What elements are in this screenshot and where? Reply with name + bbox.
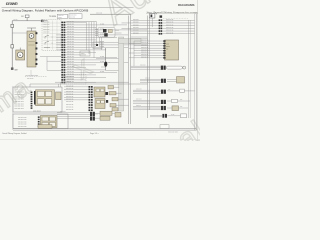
- wire left vertical: [11, 21, 13, 69]
- svg-text:xxxx xxx xx: xxxx xxx xx: [141, 49, 149, 51]
- svg-text:xxx xxxx xx: xxx xxxx xx: [66, 99, 74, 101]
- svg-text:xxxx xx: xxxx xx: [136, 105, 141, 107]
- box center a: [93, 42, 102, 49]
- svg-text:xxxx xxx xxxx: xxxx xxx xxxx: [15, 103, 24, 105]
- watermark fragment al (bottom-right corner): [171, 105, 226, 157]
- svg-text:xxx xx xxx: xxx xx xxx: [67, 26, 74, 28]
- wire under boxes: [96, 58, 119, 60]
- left stubs into CA401: [56, 35, 61, 50]
- svg-text:Page 2-3 x: Page 2-3 x: [90, 133, 99, 135]
- svg-text:xxxx xxxx xxxx: xxxx xxxx xxxx: [168, 131, 178, 133]
- svg-text:xxx xx xxx: xxx xx xxx: [67, 24, 74, 26]
- legend box 2: [69, 14, 82, 19]
- tiny connector top right: [160, 15, 163, 17]
- svg-text:xxxx xxx xx: xxxx xxx xx: [166, 32, 174, 34]
- svg-text:xxxx xxx xxxx: xxxx xxx xxxx: [15, 96, 24, 98]
- svg-text:M: M: [19, 55, 21, 57]
- relay K1 cluster: [98, 28, 115, 38]
- svg-text:Overall Wiring Diagram, Folded: Overall Wiring Diagram, Folded: [2, 132, 26, 135]
- row B: [133, 89, 161, 91]
- svg-text:xxx: xxx: [180, 99, 182, 101]
- wire to contactor: [12, 32, 27, 34]
- svg-text:xxx xx xxx: xxx xx xxx: [67, 54, 74, 56]
- connector column upper right: [159, 19, 163, 34]
- svg-text:xxxx xxx xx: xxxx xxx xx: [141, 45, 149, 47]
- fuse F1: [25, 15, 29, 18]
- svg-text:xxxx xxx: xxxx xxx: [58, 15, 64, 17]
- svg-text:xxxx xxx xx: xxxx xxx xx: [166, 27, 174, 29]
- wire below relay: [101, 37, 103, 50]
- watermark fragment x (center): [66, 50, 97, 86]
- frame left lower: [12, 86, 14, 130]
- wire long a: [55, 81, 129, 83]
- wire drop b: [60, 82, 62, 87]
- svg-text:xxx xxxx xxx: xxx xxxx xxx: [18, 119, 27, 121]
- controller pins: [163, 40, 165, 58]
- svg-text:xxx xx xxx: xxx xx xxx: [67, 61, 74, 63]
- wire contactor top stub: [31, 28, 33, 31]
- harness band horizontal: [119, 39, 142, 44]
- dotted wire top right: [163, 17, 188, 19]
- wire lower left a: [40, 56, 61, 58]
- svg-text:xxx xx xxx: xxx xx xxx: [67, 56, 74, 58]
- controller tan box: [165, 40, 179, 60]
- page right edge: [197, 0, 199, 141]
- enclosure box 1: [13, 87, 62, 112]
- svg-text:xx xxx: xx xxx: [100, 71, 104, 73]
- wire drop a: [58, 84, 60, 87]
- header rule: [2, 7, 134, 9]
- svg-text:xxxx xxx xx: xxxx xxx xx: [141, 42, 149, 44]
- svg-text:xxxx xxxx: xxxx xxxx: [96, 13, 102, 15]
- svg-text:xxx xx xxx: xxx xx xxx: [67, 44, 74, 46]
- small box on rules: [160, 125, 169, 129]
- wire top long: [90, 13, 131, 15]
- dark speck a: [105, 92, 108, 95]
- svg-text:xxxx: xxxx: [166, 43, 169, 45]
- svg-text:xxx xxxxx: xxx xxxxx: [27, 78, 34, 80]
- svg-text:xxx xx xxx: xxx xx xxx: [67, 39, 74, 41]
- svg-text:xxx xxxx: xxx xxxx: [70, 17, 76, 19]
- svg-text:xxx: xxx: [168, 89, 170, 91]
- box1 small tan: [56, 92, 61, 100]
- svg-text:xxxxx xxx: xxxxx xxx: [43, 27, 49, 29]
- svg-text:xxx xxxx xx: xxx xxxx xx: [66, 109, 74, 111]
- svg-text:xxxxx: xxxxx: [81, 53, 85, 55]
- svg-text:xxxx xxx xx: xxxx xxx xx: [166, 24, 174, 26]
- svg-text:xxx: xxx: [94, 46, 96, 48]
- svg-text:xxx xx xxx: xxx xx xxx: [67, 41, 74, 43]
- svg-text:xxx xxxx: xxx xxxx: [60, 111, 66, 113]
- svg-text:xxx xxxx xx: xxx xxxx xx: [66, 86, 74, 88]
- svg-text:xxxx xxx xxxx: xxxx xxx xxxx: [15, 92, 24, 94]
- svg-text:xxxxx xxx: xxxxx xxx: [43, 32, 49, 34]
- box2 pin strip: [38, 116, 40, 127]
- svg-text:crown: crown: [6, 1, 18, 6]
- svg-text:xxx xxxx: xxx xxxx: [133, 30, 139, 32]
- legend box 1: [57, 14, 67, 18]
- svg-text:Overall Wiring Diagram, Folded: Overall Wiring Diagram, Folded Platform …: [2, 8, 88, 12]
- svg-text:xxxxx xxx: xxxxx xxx: [43, 24, 49, 26]
- svg-text:xxx xxxx: xxx xxxx: [140, 64, 146, 66]
- svg-text:xx xxx: xx xxx: [100, 56, 104, 58]
- svg-text:xxx xxxx xx: xxx xxxx xx: [66, 88, 74, 90]
- svg-text:xxxxx: xxxxx: [58, 17, 62, 19]
- dark capsule fuse: [105, 48, 107, 70]
- svg-text:xxx xxxx xxx: xxx xxxx xxx: [18, 121, 27, 123]
- svg-text:xx xxx: xx xxx: [100, 34, 104, 36]
- svg-text:xxxx xxx xxxx: xxxx xxx xxxx: [15, 106, 24, 108]
- dark speck b: [106, 100, 108, 103]
- switch symbols in panel: [45, 35, 49, 36]
- page bottom edge: [0, 139, 200, 141]
- contactor pins right: [35, 42, 37, 44]
- svg-text:xxxx xxx xxxx: xxxx xxx xxxx: [15, 99, 24, 101]
- dashed callout bottom-left: [25, 76, 47, 78]
- svg-text:xxxx xxxxx: xxxx xxxxx: [33, 111, 41, 113]
- svg-text:xxx xx xxx: xxx xx xxx: [67, 36, 74, 38]
- enclosure box 2: [13, 114, 68, 129]
- svg-text:xxx xxxx: xxx xxxx: [133, 22, 139, 24]
- svg-text:xxx xxxx xxx: xxx xxxx xxx: [18, 124, 27, 126]
- svg-text:xxxx xxx xxxx: xxxx xxx xxxx: [15, 108, 24, 110]
- svg-text:TR 3520: TR 3520: [49, 16, 56, 18]
- svg-text:xxx xxxx xxx: xxx xxxx xxx: [18, 126, 27, 128]
- svg-text:xxx xxxx: xxx xxxx: [136, 99, 142, 101]
- svg-text:xxxx xxx xx: xxxx xxx xx: [166, 22, 174, 24]
- frame right outer: [195, 14, 197, 131]
- svg-text:xxx xx xxx: xxx xx xxx: [67, 76, 74, 78]
- svg-text:xxxx: xxxx: [94, 44, 97, 46]
- horn row: [131, 65, 161, 67]
- dark dot in box a: [96, 44, 98, 46]
- contactor top pin: [35, 32, 37, 34]
- svg-text:xxxx xxx xxxx: xxxx xxx xxxx: [15, 101, 24, 103]
- svg-text:xxxx xx: xxxx xx: [145, 78, 150, 80]
- wire feeder vertical: [133, 41, 135, 66]
- svg-text:xxx xx xxx: xxx xx xxx: [67, 59, 74, 61]
- wire fuse drop: [26, 18, 28, 21]
- wire lower left vert: [46, 57, 48, 71]
- wire top bus left: [12, 20, 40, 22]
- mesh rows upper right: [131, 37, 148, 39]
- svg-text:xx xxx: xx xxx: [100, 24, 104, 26]
- box center b: [80, 51, 90, 56]
- wire labels right of CA401: [67, 21, 104, 83]
- wire lower left c: [47, 69, 61, 71]
- bottom cluster wires left: [64, 87, 89, 100]
- wire to panel: [44, 20, 48, 22]
- svg-text:xxx xxxx: xxx xxxx: [133, 27, 139, 29]
- component tick upper: [11, 24, 14, 27]
- arrow symbol: [155, 12, 158, 14]
- svg-text:xxx: xxx: [180, 106, 182, 108]
- manifold tan boxes: [94, 87, 105, 97]
- svg-text:xxxx xxx: xxxx xxx: [136, 88, 142, 90]
- svg-text:xxx xx xxx: xxx xx xxx: [67, 29, 74, 31]
- watermark fragment ma (bottom-left): [0, 71, 37, 118]
- box1 big tan: [36, 90, 55, 106]
- svg-text:xxx xxxx xx: xxx xxxx xx: [66, 106, 74, 108]
- svg-text:xxxx xxx xx: xxxx xxx xx: [141, 52, 149, 54]
- box1 pin strip: [31, 92, 33, 109]
- component tick lower: [11, 45, 14, 48]
- svg-text:xxxxx: xxxxx: [166, 46, 170, 48]
- svg-text:xxxx xxx xx: xxxx xxx xx: [166, 19, 174, 21]
- svg-text:FU1: FU1: [21, 16, 24, 18]
- svg-text:xxx xx xxx: xxx xx xxx: [67, 46, 74, 48]
- svg-text:xxx xx xxx: xxx xx xxx: [67, 79, 74, 81]
- svg-text:xxx xxxx xx: xxx xxxx xx: [66, 101, 74, 103]
- frame bottom outer: [13, 129, 196, 131]
- svg-text:xxx xx xxx: xxx xx xxx: [67, 34, 74, 36]
- small tan boxes right of manifold: [108, 86, 114, 89]
- panel inner grid: [43, 21, 61, 50]
- svg-text:xxx xx xxx: xxx xx xxx: [67, 49, 74, 51]
- wires manifold to trunks: [114, 86, 120, 88]
- row D: [133, 106, 161, 108]
- dashed callout box lower-center: [64, 75, 86, 84]
- bottom cluster pin column: [89, 86, 93, 111]
- frame right inner: [194, 14, 196, 131]
- subtitle underline: [146, 13, 198, 15]
- svg-text:DIAGRAMS: DIAGRAMS: [178, 3, 194, 7]
- svg-text:xxxx xxx xx: xxxx xxx xx: [141, 54, 149, 56]
- svg-text:xxxx xxx xx: xxxx xxx xx: [166, 30, 174, 32]
- top bus center: [66, 21, 97, 23]
- battery terminal blob: [11, 68, 13, 70]
- contactor coil circle: [29, 34, 34, 39]
- svg-text:xxxxx xxx: xxxxx xxx: [43, 22, 49, 24]
- svg-text:xxx xxxx: xxx xxxx: [133, 24, 139, 26]
- frame bottom inner: [13, 128, 196, 130]
- connector column CA401 pins: [61, 22, 65, 84]
- row C: [133, 99, 161, 101]
- svg-text:xxx xx xxx: xxx xx xxx: [67, 64, 74, 66]
- svg-text:xxx xx: xxx xx: [14, 19, 18, 21]
- contactor box tall: [27, 31, 36, 67]
- svg-text:xxx xxxx xx: xxx xxxx xx: [66, 104, 74, 106]
- motor box: [16, 50, 25, 60]
- dashed panel box: [42, 20, 61, 51]
- svg-text:xxx xxxx: xxx xxxx: [133, 32, 139, 34]
- svg-text:xxx xxxx xx: xxx xxxx xx: [66, 91, 74, 93]
- svg-text:xxxxx xxxx: xxxxx xxxx: [70, 15, 77, 17]
- svg-text:xx xx: xx xx: [171, 114, 175, 116]
- svg-text:xxx xx xxx: xxx xx xxx: [67, 74, 74, 76]
- wire lower left b: [47, 60, 61, 62]
- svg-text:xxx xxxx xxx: xxx xxxx xxx: [18, 117, 27, 119]
- svg-text:xxx xx xxx: xxx xx xxx: [67, 69, 74, 71]
- box2 tan: [40, 116, 57, 128]
- svg-text:xxxxx xxx: xxxxx xxx: [43, 29, 49, 31]
- svg-text:xxx xx xxx: xxx xx xxx: [67, 66, 74, 68]
- svg-text:xx xxx: xx xxx: [100, 61, 104, 63]
- svg-text:xxx xxxx: xxx xxxx: [133, 19, 139, 21]
- footer tan box: [38, 125, 52, 129]
- watermark fragment Auto (top-right): [96, 0, 213, 33]
- wires from upper right column: [122, 20, 195, 34]
- row A: [140, 78, 161, 80]
- svg-text:xxx xx xxx: xxx xx xxx: [67, 71, 74, 73]
- svg-text:xxxx xxx xx: xxxx xxx xx: [141, 57, 149, 59]
- long vertical trunks: [128, 16, 130, 125]
- wire motor stub: [19, 48, 21, 50]
- svg-text:xxxx xxx xx: xxxx xxx xx: [141, 47, 149, 49]
- svg-text:xxx xx xxx: xxx xx xxx: [67, 31, 74, 33]
- controller pin wires: [129, 41, 163, 58]
- svg-text:xxx xxxx xx: xxx xxxx xx: [66, 96, 74, 98]
- svg-text:xxx xx xxx: xxx xx xxx: [67, 51, 74, 53]
- svg-text:xxxx xxx xxxx: xxxx xxx xxxx: [15, 94, 24, 96]
- svg-text:xxx: xxx: [166, 49, 169, 51]
- small relay top right: [150, 14, 155, 18]
- svg-text:xx xxxx xxxxx xxxx: xx xxxx xxxxx xxxx: [26, 75, 39, 77]
- svg-text:xxx: xxx: [95, 28, 97, 30]
- connector ticks: [40, 20, 43, 22]
- svg-text:xxxx xxx xx: xxxx xxx xx: [141, 40, 149, 42]
- central trunk verticals: [86, 22, 88, 50]
- wire long b: [30, 83, 148, 85]
- wires fanning right from CA401: [66, 22, 147, 82]
- bottom rows center: [57, 112, 90, 114]
- svg-text:xxx xxxx xx: xxx xxxx xx: [66, 93, 74, 95]
- harness band vertical: [119, 37, 124, 111]
- row E: [150, 114, 162, 116]
